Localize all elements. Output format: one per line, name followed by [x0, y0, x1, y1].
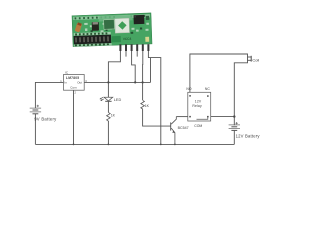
svg-text:Out: Out	[77, 81, 82, 85]
svg-text:LED: LED	[114, 98, 122, 102]
svg-text:LM7805: LM7805	[66, 76, 79, 80]
svg-text:Com: Com	[70, 86, 77, 90]
svg-text:9V Battery: 9V Battery	[34, 117, 57, 122]
svg-text:12V Battery: 12V Battery	[236, 133, 261, 138]
svg-text:In: In	[64, 81, 67, 85]
svg-text:Relay: Relay	[192, 104, 202, 108]
svg-text:1K: 1K	[111, 114, 116, 118]
svg-text:BC547: BC547	[178, 126, 189, 130]
svg-text:COM: COM	[194, 124, 202, 128]
svg-text:NO: NO	[186, 87, 191, 91]
svg-text:VCC4: VCC4	[123, 37, 132, 41]
svg-text:NC: NC	[205, 87, 210, 91]
svg-text:Coil: Coil	[252, 58, 259, 63]
svg-text:12V: 12V	[195, 99, 202, 103]
svg-text:1K: 1K	[145, 104, 150, 108]
